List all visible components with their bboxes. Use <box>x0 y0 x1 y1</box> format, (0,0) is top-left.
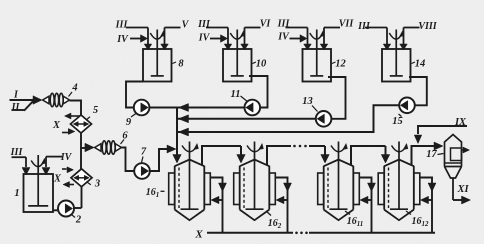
junction vertical feed to reactor 16-1 <box>173 108 182 164</box>
label 13 <box>302 96 317 112</box>
svg-text:7: 7 <box>141 147 147 158</box>
wire pump15 to junction line C <box>177 105 399 132</box>
wire feeder4 to exchanger5 <box>70 101 82 116</box>
transfer bridge 16-1 to 16-2 <box>202 146 245 165</box>
transfer bridge dots to 16-11 <box>309 146 329 163</box>
wire exchanger5 down to junction <box>80 133 82 149</box>
svg-text:VI: VI <box>260 19 272 30</box>
label 16-12 <box>406 211 429 228</box>
stream label III (tank 8) <box>115 20 129 31</box>
svg-text:VIII: VIII <box>418 21 437 32</box>
stream label VI <box>260 19 272 30</box>
svg-text:1: 1 <box>14 188 19 199</box>
label 16-1 <box>146 187 165 199</box>
stream label IV (tank 12) <box>277 32 290 43</box>
heat exchanger 3 (diamond) <box>71 169 100 190</box>
stream label III (tank 1) <box>10 147 24 158</box>
arrow into junction on line B <box>179 115 189 123</box>
polymerizer reactor 16-2 <box>234 142 276 221</box>
wire 16-12 to separator 17 <box>412 142 444 165</box>
stream label IV (tank 10) <box>198 33 211 44</box>
coolant manifold X <box>207 232 435 234</box>
wire pump9-pump11 manifold A <box>149 107 245 109</box>
cooling piping at reactor 16-11 <box>359 178 375 233</box>
stream IX line <box>414 126 467 144</box>
wire tank1 to pump2 <box>53 209 60 211</box>
svg-text:II: II <box>11 102 21 113</box>
label X at exchanger 5 <box>52 120 61 131</box>
wire tank12 to pump13 <box>328 77 346 119</box>
coolant X into exchanger 5 <box>62 129 75 135</box>
wire tank14 to pump15 <box>409 77 427 105</box>
wire pump13 to junction line B <box>177 118 316 120</box>
pump 7 <box>134 163 150 179</box>
svg-text:XI: XI <box>456 184 469 195</box>
wire junction to feeder 6 <box>81 144 94 152</box>
svg-text:6: 6 <box>122 131 128 142</box>
svg-text:13: 13 <box>302 96 313 107</box>
wire III into tank 1 <box>12 157 31 175</box>
svg-text:5: 5 <box>93 105 98 116</box>
arrow into junction on line A <box>179 104 189 112</box>
cooling piping at reactor 16-2 <box>275 178 291 233</box>
polymerizer reactor 16-11 <box>318 142 360 221</box>
mixer tank 10 <box>206 28 267 82</box>
arrow into junction on line C <box>179 128 189 136</box>
label 1 <box>14 188 19 199</box>
stream label IV (tank 1) <box>60 152 73 163</box>
svg-text:14: 14 <box>415 59 426 70</box>
pump 11 <box>245 100 261 116</box>
polymerizer reactor 16-12 <box>378 142 420 221</box>
stream label IV (tank 8) <box>116 34 129 45</box>
stream label I <box>13 90 19 101</box>
svg-text:10: 10 <box>256 59 267 70</box>
svg-text:III: III <box>197 19 211 30</box>
wire tank10 to pump11 <box>249 76 268 108</box>
ellipsis dots on bridge <box>293 145 307 148</box>
label X at exchanger 3 <box>53 174 62 185</box>
transfer bridge 16-2 to dots <box>267 146 291 165</box>
cooling piping at reactor 16-12 <box>420 178 436 233</box>
stream label III (tank 10) <box>197 19 211 30</box>
stream label VII <box>339 19 355 30</box>
wire IV into tank 1 <box>42 157 62 175</box>
screw feeder 6 <box>85 131 128 155</box>
svg-text:IV: IV <box>277 32 290 43</box>
screw feeder 4 <box>33 83 78 107</box>
wire exchanger3 down to pump2 outlet <box>81 187 83 209</box>
svg-text:III: III <box>115 20 129 31</box>
svg-text:X: X <box>194 229 203 241</box>
pump 9 <box>134 100 150 116</box>
label 2 <box>72 215 82 226</box>
svg-text:X: X <box>52 120 61 131</box>
ellipsis dots on manifold <box>295 232 308 235</box>
coolant X out of exchanger 5 <box>65 113 81 119</box>
label 17 <box>426 149 443 160</box>
svg-text:9: 9 <box>126 117 132 128</box>
stream label II <box>11 102 21 113</box>
label 9 <box>126 114 136 129</box>
coolant X into exchanger 3 <box>62 167 74 173</box>
mixer tank 12 <box>286 28 347 82</box>
wire vertical to exchanger 3 <box>80 148 82 170</box>
svg-text:11: 11 <box>231 89 241 100</box>
svg-text:12: 12 <box>335 59 346 70</box>
stream label VIII <box>418 21 437 32</box>
stream XI outlet <box>453 196 471 204</box>
stream label XI <box>456 184 469 195</box>
svg-text:3: 3 <box>94 178 100 189</box>
svg-text:17: 17 <box>426 149 437 160</box>
mixer tank 8 <box>126 28 184 82</box>
pump 13 <box>316 111 332 127</box>
mixer tank 14 <box>365 28 425 82</box>
svg-text:4: 4 <box>71 83 77 94</box>
heat exchanger 5 (diamond) <box>71 105 99 133</box>
wire pump7 to reactor feed junction <box>150 145 176 171</box>
label X at manifold <box>194 229 203 241</box>
mixer tank 1 <box>24 155 54 212</box>
svg-text:IV: IV <box>116 34 129 45</box>
stream label III (tank 14) <box>357 21 371 32</box>
wire stream I <box>10 99 34 101</box>
wire pump2 to exchanger3 riser <box>74 207 82 209</box>
coolant X out of exchanger 3 <box>63 182 74 188</box>
svg-text:IV: IV <box>198 33 211 44</box>
svg-text:X: X <box>53 174 62 185</box>
svg-text:2: 2 <box>75 215 82 226</box>
transfer bridge 16-11 to 16-12 <box>351 146 390 165</box>
label 15 <box>392 114 403 127</box>
label 7 <box>141 147 147 163</box>
wire stream II <box>12 101 34 111</box>
pump 2 <box>58 201 74 217</box>
pump 15 <box>399 98 415 114</box>
polymerizer reactor 16-1 <box>169 142 211 221</box>
svg-text:IX: IX <box>454 117 467 128</box>
stream label IX <box>454 117 467 128</box>
stream label III (tank 12) <box>277 19 291 30</box>
svg-text:15: 15 <box>392 116 403 127</box>
vapor arrow out of separator 17 <box>462 147 470 153</box>
label 16-11 <box>345 211 363 228</box>
stream label V <box>182 20 190 31</box>
label 11 <box>231 89 248 102</box>
svg-text:8: 8 <box>178 59 184 70</box>
separator 17 <box>445 135 462 201</box>
label 16-2 <box>266 211 282 230</box>
wire tank8 to pump9 <box>126 82 143 108</box>
svg-text:III: III <box>277 19 291 30</box>
svg-text:VII: VII <box>339 19 355 30</box>
wire feeder6 to pump7 <box>122 148 135 172</box>
svg-text:III: III <box>357 21 371 32</box>
cooling piping at reactor 16-1 <box>210 178 226 233</box>
